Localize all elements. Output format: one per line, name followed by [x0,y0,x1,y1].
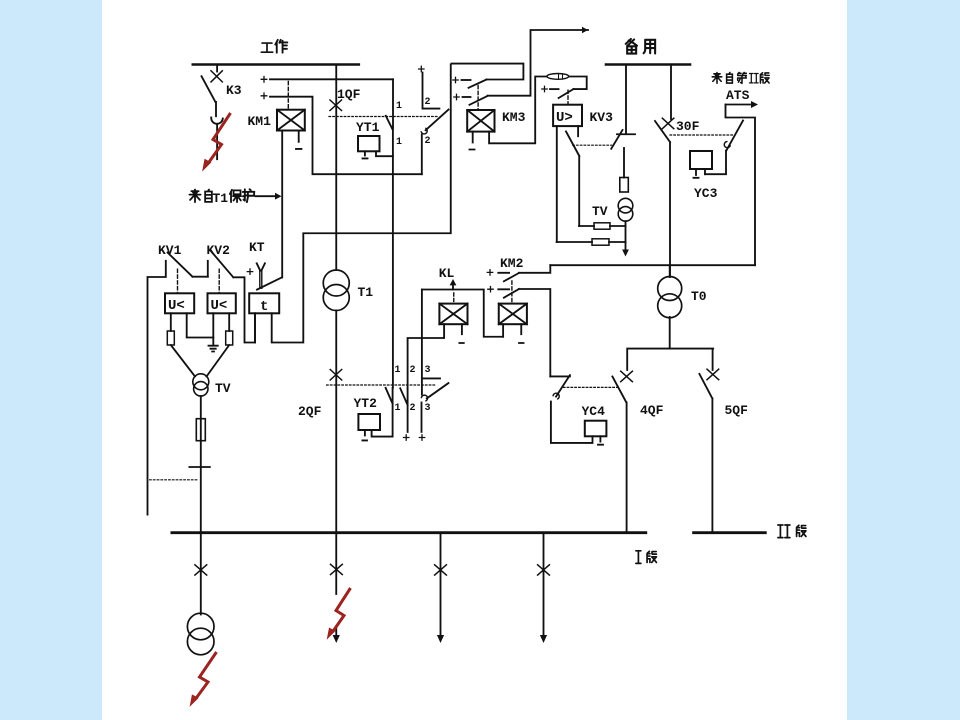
svg-text:KM3: KM3 [502,110,526,125]
svg-text:U<: U< [168,298,185,314]
svg-text:TV: TV [215,381,231,396]
svg-text:YT2: YT2 [354,396,378,411]
svg-text:3: 3 [425,403,431,414]
svg-text:2: 2 [410,403,416,414]
svg-text:U>: U> [556,110,573,126]
svg-text:ATS: ATS [726,88,750,103]
svg-text:3: 3 [425,365,431,376]
svg-text:YC3: YC3 [694,186,718,201]
svg-text:T1: T1 [213,191,229,206]
svg-text:2QF: 2QF [298,404,322,419]
svg-text:K3: K3 [226,83,242,98]
svg-text:5QF: 5QF [725,403,749,418]
svg-text:4QF: 4QF [640,403,664,418]
svg-text:KV1: KV1 [158,243,182,258]
svg-text:KT: KT [249,240,265,255]
svg-text:t: t [260,299,268,315]
svg-text:2: 2 [410,365,416,376]
svg-text:1QF: 1QF [337,87,361,102]
svg-text:2: 2 [425,97,431,108]
svg-text:KL: KL [439,266,455,281]
svg-text:1: 1 [396,101,402,112]
svg-text:U<: U< [211,298,228,314]
svg-text:KM1: KM1 [248,114,272,129]
svg-text:KV3: KV3 [590,110,614,125]
svg-text:1: 1 [395,403,401,414]
svg-text:YC4: YC4 [582,404,606,419]
svg-text:YT1: YT1 [356,120,380,135]
svg-text:2: 2 [425,136,431,147]
svg-text:T1: T1 [358,285,374,300]
svg-text:T0: T0 [691,289,707,304]
svg-text:1: 1 [395,365,401,376]
svg-text:1: 1 [396,137,402,148]
svg-text:TV: TV [592,204,608,219]
svg-text:KV2: KV2 [207,243,231,258]
svg-text:30F: 30F [676,119,700,134]
svg-text:KM2: KM2 [500,256,524,271]
